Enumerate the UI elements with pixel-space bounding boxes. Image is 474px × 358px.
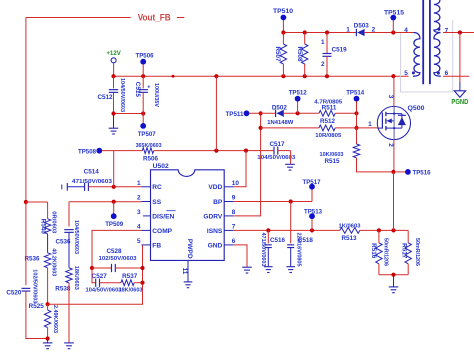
wire D503 to transformer pin4 — [365, 32, 414, 34]
testpoint TP513 — [311, 219, 313, 231]
svg-text:GDRV: GDRV — [203, 213, 223, 220]
pin 4 COMP — [142, 229, 151, 231]
pin 9 BP — [224, 201, 233, 203]
wire D502 to R511 — [284, 112, 319, 114]
pin 7 ISNS — [224, 229, 233, 231]
wire Vout_FB top border — [26, 17, 131, 19]
pin 8 GDRV — [224, 215, 233, 217]
svg-text:R538: R538 — [55, 285, 71, 292]
svg-text:7: 7 — [445, 27, 449, 34]
svg-text:1: 1 — [346, 26, 350, 33]
transformer core — [422, 0, 424, 84]
svg-text:D502: D502 — [272, 104, 287, 111]
svg-text:R512: R512 — [320, 118, 336, 125]
svg-text:104/50V/0603: 104/50V/0603 — [119, 78, 125, 113]
svg-text:100U/35V: 100U/35V — [153, 83, 159, 107]
IC U502 body — [151, 170, 225, 261]
wire source node — [391, 170, 395, 174]
ground under R525 — [47, 339, 49, 343]
pin 3 DIS/EN — [143, 215, 151, 217]
svg-text:TP507: TP507 — [138, 131, 156, 138]
wire D503 row — [283, 32, 356, 34]
ground under sense resistors — [393, 275, 395, 287]
svg-text:18K/0603: 18K/0603 — [119, 288, 144, 294]
svg-text:RC: RC — [152, 184, 162, 191]
wire C514 to RC — [89, 186, 142, 188]
svg-text:ISNS: ISNS — [207, 228, 223, 235]
pin 5 FB — [142, 244, 151, 246]
wire TP508 row — [102, 150, 142, 152]
svg-text:471/50V/0603: 471/50V/0603 — [72, 179, 113, 185]
svg-text:DIS/EN: DIS/EN — [152, 213, 174, 220]
svg-text:10R/0805: 10R/0805 — [315, 133, 342, 139]
ground pin 6 — [242, 266, 252, 268]
svg-text:3: 3 — [137, 209, 141, 216]
testpoint TP506 — [140, 59, 146, 65]
wire +12V rail — [114, 75, 409, 77]
wire pin7 to right — [443, 32, 474, 34]
svg-text:R536: R536 — [24, 255, 40, 262]
svg-text:TP510: TP510 — [273, 8, 293, 15]
testpoint TP516 — [396, 171, 405, 173]
testpoint TP517 — [311, 189, 313, 201]
svg-text:2: 2 — [387, 143, 394, 147]
svg-text:0R/0603: 0R/0603 — [50, 211, 56, 234]
wire pin6 to right — [443, 75, 469, 77]
ground pin 11 — [184, 281, 193, 283]
testpoint TP512 — [295, 96, 301, 102]
transformer upper secondary winding — [434, 0, 441, 33]
svg-text:8: 8 — [232, 209, 236, 216]
svg-text:1N4148W: 1N4148W — [267, 120, 293, 126]
svg-text:40.2K/0603: 40.2K/0603 — [50, 248, 56, 277]
wire R513 to sense resistors — [360, 229, 408, 231]
svg-text:FB: FB — [152, 242, 161, 249]
svg-text:50mR/1206: 50mR/1206 — [383, 238, 389, 267]
svg-text:+12V: +12V — [106, 50, 121, 57]
svg-text:TP506: TP506 — [136, 53, 154, 60]
wire TP508 riser — [113, 151, 115, 187]
svg-text:6: 6 — [232, 238, 236, 245]
wire source to sense — [393, 172, 395, 231]
wire BP row — [233, 201, 312, 203]
svg-text:R516: R516 — [370, 243, 377, 259]
svg-text:SS: SS — [152, 199, 161, 206]
svg-text:TP516: TP516 — [413, 169, 431, 176]
svg-text:10: 10 — [232, 180, 240, 187]
svg-text:TP509: TP509 — [105, 221, 123, 228]
svg-text:5: 5 — [137, 238, 141, 245]
wire VDD riser — [233, 151, 246, 187]
wire SS row — [26, 201, 48, 203]
svg-text:R506: R506 — [143, 155, 159, 162]
svg-text:Q500: Q500 — [408, 105, 425, 112]
svg-text:Vout_FB: Vout_FB — [138, 12, 171, 22]
svg-text:3: 3 — [387, 95, 394, 99]
svg-text:TP511: TP511 — [226, 111, 244, 118]
wire C512 bottom — [114, 113, 144, 115]
svg-text:2: 2 — [321, 61, 325, 68]
svg-text:R537: R537 — [122, 273, 138, 280]
ground under C512 — [113, 114, 115, 129]
svg-text:U502: U502 — [153, 163, 169, 170]
svg-text:1: 1 — [368, 121, 372, 128]
wire GDRV riser — [233, 113, 261, 216]
svg-text:2.49K/0603: 2.49K/0603 — [52, 305, 58, 334]
svg-text:TP517: TP517 — [303, 179, 321, 186]
svg-text:7: 7 — [232, 224, 236, 231]
svg-text:TP513: TP513 — [304, 208, 322, 215]
wire R506 to C517 — [154, 150, 274, 152]
svg-text:1: 1 — [137, 180, 141, 187]
wire TP511 to D502 — [249, 112, 276, 114]
svg-text:5: 5 — [404, 70, 408, 77]
svg-text:9: 9 — [232, 195, 236, 202]
svg-text:TP514: TP514 — [346, 90, 364, 97]
svg-text:11: 11 — [181, 268, 188, 275]
svg-text:D503: D503 — [354, 23, 369, 30]
wire R511 to TP514 node — [335, 112, 356, 114]
svg-text:365K/0603: 365K/0603 — [136, 143, 163, 149]
svg-text:2: 2 — [137, 195, 141, 202]
wire gate row — [261, 127, 319, 129]
svg-text:R511: R511 — [322, 105, 337, 112]
ground under C518 — [286, 266, 295, 268]
pin 10 VDD — [224, 186, 233, 188]
wire FB feedback bottom — [48, 245, 143, 304]
testpoint TP507 — [142, 114, 144, 124]
svg-text:18K/0603: 18K/0603 — [73, 266, 79, 291]
svg-text:COMP: COMP — [152, 228, 172, 235]
ground under C517 — [285, 163, 295, 165]
room boundary — [401, 20, 453, 92]
svg-text:4: 4 — [404, 27, 408, 34]
svg-text:C519: C519 — [332, 47, 347, 54]
svg-text:PGND: PGND — [451, 99, 468, 106]
wire Vout_FB left rail — [25, 18, 27, 203]
wire sense bottom — [379, 274, 408, 276]
svg-text:TP512: TP512 — [289, 90, 307, 97]
overline on EN of DIS/EN — [166, 210, 175, 212]
pin 2 SS — [142, 201, 151, 203]
svg-text:225/16V/0805: 225/16V/0805 — [296, 233, 302, 268]
svg-text:BP: BP — [213, 199, 223, 206]
svg-text:102/50V/0603: 102/50V/0603 — [32, 269, 38, 304]
svg-text:C512: C512 — [97, 94, 113, 101]
svg-text:R515: R515 — [324, 158, 340, 165]
svg-text:471/50V/0603: 471/50V/0603 — [260, 233, 266, 268]
svg-text:GND: GND — [208, 242, 223, 249]
svg-text:50mR/1206: 50mR/1206 — [414, 238, 420, 267]
svg-text:102/50V/0603: 102/50V/0603 — [99, 256, 138, 262]
svg-text:PWPD: PWPD — [186, 239, 193, 259]
svg-text:C520: C520 — [6, 289, 22, 296]
svg-text:C528: C528 — [106, 248, 122, 255]
testpoint TP514 — [354, 96, 360, 102]
svg-text:+: + — [147, 85, 150, 91]
pin 1 RC — [142, 186, 151, 188]
svg-text:104/50V/0603: 104/50V/0603 — [73, 220, 79, 255]
svg-text:1: 1 — [321, 39, 325, 46]
wire PGND drop — [459, 33, 461, 83]
pin 6 GND — [224, 244, 233, 246]
svg-text:4: 4 — [137, 224, 141, 231]
wire +12V to rail — [113, 63, 115, 75]
ground under C516 — [264, 266, 273, 268]
wire GND pin6 to ground — [233, 245, 247, 267]
svg-text:C514: C514 — [84, 168, 100, 175]
ground under R538 — [64, 342, 74, 344]
svg-text:VDD: VDD — [208, 184, 222, 191]
svg-text:R525: R525 — [29, 303, 45, 310]
wire ISNS row — [233, 229, 340, 231]
node SS junction on rail — [24, 200, 28, 204]
wire COMP loop — [92, 230, 142, 268]
svg-text:104/50V/0603: 104/50V/0603 — [86, 288, 123, 294]
wire +12V riser to R506 row — [215, 76, 217, 150]
testpoint TP509 — [113, 202, 115, 214]
ground PGND — [454, 91, 465, 98]
svg-text:R513: R513 — [341, 235, 357, 242]
svg-text:C516: C516 — [270, 237, 286, 244]
svg-text:R517: R517 — [400, 243, 407, 259]
svg-text:TP508: TP508 — [78, 149, 96, 156]
